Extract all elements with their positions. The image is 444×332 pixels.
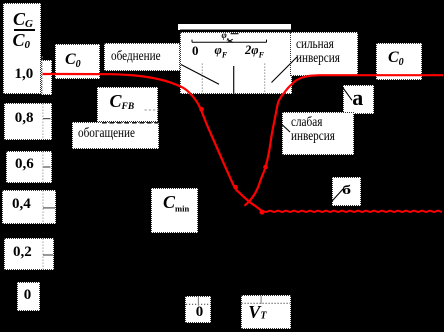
text C_FB (110, 92, 135, 113)
text 0,2 (13, 245, 32, 260)
red C-V curve common branch and curve b (high freq) (43, 74, 265, 211)
label 0 (y-axis) box (17, 282, 40, 311)
scale tick under 0 (dotted) (201, 64, 203, 95)
text 1,0 (15, 67, 34, 82)
weak inversion label box (282, 112, 354, 155)
curve b label box (332, 177, 361, 205)
fraction bar (14, 29, 35, 31)
phi_s box with brace and 0 phiF 2phiF (180, 32, 292, 95)
text 0 x-axis (196, 305, 204, 320)
grey dashed segment right of C_FB (145, 109, 159, 111)
y-axis label box C_G/C_0 with 1,0 (3, 3, 41, 94)
x-axis V_T box (241, 295, 291, 329)
text 0 top scale (192, 44, 199, 57)
pointer line to curve b label (323, 189, 343, 211)
text C_G numerator (13, 10, 33, 30)
text depletion (111, 50, 161, 64)
wavy flat segment of curve b (264, 211, 442, 212)
text phi_F (215, 44, 228, 60)
label 0,8 box (4, 103, 52, 140)
text strong inversion (296, 38, 340, 65)
red curve a branch (low freq) (245, 75, 444, 206)
curve a label box (343, 85, 374, 113)
phi_s overline dash (231, 33, 239, 35)
pointer line to curve a label (335, 77, 352, 101)
C_min label box (151, 188, 198, 233)
text 2phi_F (245, 44, 264, 60)
accumulation label box (72, 122, 159, 150)
top white bar (178, 24, 291, 31)
scale tick under 2phiF (dotted) (264, 64, 266, 95)
x-axis dotted line segments (186, 303, 290, 304)
pointer line from depletion label (181, 65, 219, 85)
dashed C_FB level line (102, 122, 159, 124)
brace over 0..2phiF (192, 39, 267, 42)
text 0 y-axis (24, 288, 32, 303)
x-axis tick marks (198, 296, 261, 306)
label 0,6 box (6, 151, 52, 183)
text C0 right (388, 50, 404, 68)
text phi_s tiny (222, 31, 230, 43)
label 0,2 box (4, 238, 54, 270)
text C_min (163, 193, 189, 213)
y-axis tick marks (43, 74, 55, 255)
x-axis 0 box (185, 296, 211, 323)
text b (342, 183, 351, 196)
text C_0 denominator (13, 31, 31, 51)
y-axis strip at 1.0 level (41, 60, 53, 95)
text V_T (248, 303, 266, 322)
C_FB label box (97, 87, 158, 122)
label 0,4 box (2, 190, 56, 224)
scale tick under phiF (solid) (233, 66, 235, 94)
strong inversion label box (290, 32, 358, 76)
text a (352, 87, 363, 109)
text accumulation (78, 127, 135, 141)
text 0,6 (15, 157, 34, 172)
solid line under top bar (180, 29, 291, 31)
label C0 right box (376, 43, 422, 80)
text weak inversion (291, 116, 335, 143)
pointer line from weak inversion label (276, 119, 290, 132)
depletion label box (104, 43, 180, 72)
text 0,8 (15, 111, 34, 126)
y-axis dotted line segments (41, 57, 44, 270)
pointer line from strong inversion label (272, 57, 298, 83)
red marker dots (199, 107, 204, 112)
label C0 left box (55, 44, 101, 79)
text 0,4 (12, 197, 31, 212)
text C0 left (65, 52, 81, 70)
